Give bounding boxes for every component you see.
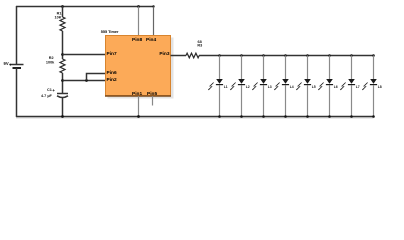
junction LED L4 top — [284, 54, 287, 57]
junction LED L1 top — [218, 54, 221, 57]
LED L4 — [274, 56, 294, 118]
LED L6 — [318, 56, 338, 118]
wire top rail to R1 — [62, 6, 64, 17]
svg-text:L7: L7 — [356, 85, 360, 89]
junction C1 at bottom rail — [61, 115, 64, 118]
junction LED L2 top — [240, 54, 243, 57]
wire LED anode bus — [219, 55, 374, 57]
wire Pin5 stub (unconnected) — [152, 96, 154, 106]
wire Pin3 output — [171, 55, 187, 57]
U1 pin label Pin1 — [132, 91, 142, 97]
U1 pin label Pin5 — [147, 91, 157, 97]
junction LED L3 top — [262, 54, 265, 57]
wire battery bottom column — [16, 68, 18, 117]
svg-text:R3: R3 — [197, 43, 202, 47]
junction LED L4 bottom — [284, 115, 287, 118]
svg-text:Pin6: Pin6 — [107, 70, 117, 76]
resistor R2 100k — [46, 56, 65, 73]
svg-text:L3: L3 — [268, 85, 272, 89]
svg-text:L8: L8 — [378, 85, 382, 89]
op 555 timer U1 block — [101, 30, 171, 96]
wire Pin8 — [138, 7, 140, 37]
junction top of R1 — [61, 5, 64, 8]
LED L5 — [296, 56, 316, 118]
junction Pin8 at top rail — [137, 5, 140, 8]
capacitor C1 4.7 uF — [41, 88, 68, 98]
wire battery top column — [16, 6, 18, 65]
svg-text:+: + — [52, 88, 55, 93]
junction LED L7 top — [350, 54, 353, 57]
resistor R1 10K — [55, 11, 65, 31]
LED L1 — [208, 56, 228, 118]
junction LED L1 bottom — [218, 115, 221, 118]
svg-text:Pin7: Pin7 — [107, 51, 117, 57]
wire bottom rail (ground return) — [16, 117, 374, 119]
svg-text:Pin1: Pin1 — [132, 91, 142, 97]
junction LED L2 bottom — [240, 115, 243, 118]
junction LED L7 bottom — [350, 115, 353, 118]
junction LED L8 top — [372, 54, 375, 57]
junction Pin6 branch — [85, 79, 88, 82]
LED L2 — [230, 56, 250, 118]
battery V1 9V — [4, 61, 24, 68]
svg-text:4.7 µF: 4.7 µF — [41, 94, 53, 98]
svg-text:Pin8: Pin8 — [132, 37, 142, 43]
svg-text:555 Timer: 555 Timer — [101, 30, 119, 34]
LED L3 — [252, 56, 272, 118]
svg-text:Pin2: Pin2 — [107, 77, 117, 83]
svg-text:L6: L6 — [334, 85, 338, 89]
junction LED L6 bottom — [328, 115, 331, 118]
wire R3 to LED bus — [199, 55, 219, 57]
wire C1 bottom to rail — [62, 98, 64, 118]
wire Pin6 jog — [87, 74, 106, 81]
junction R1/R2/Pin7 node — [61, 53, 64, 56]
junction LED L5 bottom — [306, 115, 309, 118]
junction LED L5 top — [306, 54, 309, 57]
op 555 timer U1 block shadow — [108, 38, 174, 99]
svg-text:C1: C1 — [47, 88, 52, 92]
junction Pin4 top rail corner — [152, 5, 154, 7]
svg-text:10K: 10K — [55, 15, 62, 19]
svg-text:L4: L4 — [290, 85, 294, 89]
svg-text:L2: L2 — [246, 85, 250, 89]
wire R1 bottom to junction — [62, 31, 64, 59]
wire Pin2 — [63, 80, 106, 82]
U1 pin label Pin7 — [107, 51, 117, 57]
junction LED L6 top — [328, 54, 331, 57]
svg-text:Pin3: Pin3 — [159, 51, 169, 57]
U1 pin label Pin6 — [107, 70, 117, 76]
wire Pin1 to ground rail — [138, 96, 140, 117]
U1 pin label Pin2 — [107, 77, 117, 83]
junction Pin1 at bottom rail — [137, 115, 140, 118]
LED L8 — [362, 56, 382, 118]
LED L7 — [340, 56, 360, 118]
wire Pin4 — [153, 7, 155, 37]
junction R2/C1/Pin2 node — [61, 79, 64, 82]
svg-text:100k: 100k — [46, 61, 55, 65]
junction LED L3 bottom — [262, 115, 265, 118]
wire R2 bottom to junction — [62, 73, 64, 93]
svg-text:L1: L1 — [224, 85, 228, 89]
wire Pin7 — [63, 54, 106, 56]
resistor R3 68 — [186, 40, 202, 58]
U1 pin label Pin4 — [146, 37, 156, 43]
svg-text:Pin4: Pin4 — [146, 37, 156, 43]
svg-text:L5: L5 — [312, 85, 316, 89]
junction LED L8 bottom — [372, 115, 375, 118]
U1 pin label Pin3 — [159, 51, 169, 57]
svg-text:R2: R2 — [49, 56, 54, 60]
U1 pin label Pin8 — [132, 37, 142, 43]
wire top rail — [16, 6, 154, 8]
